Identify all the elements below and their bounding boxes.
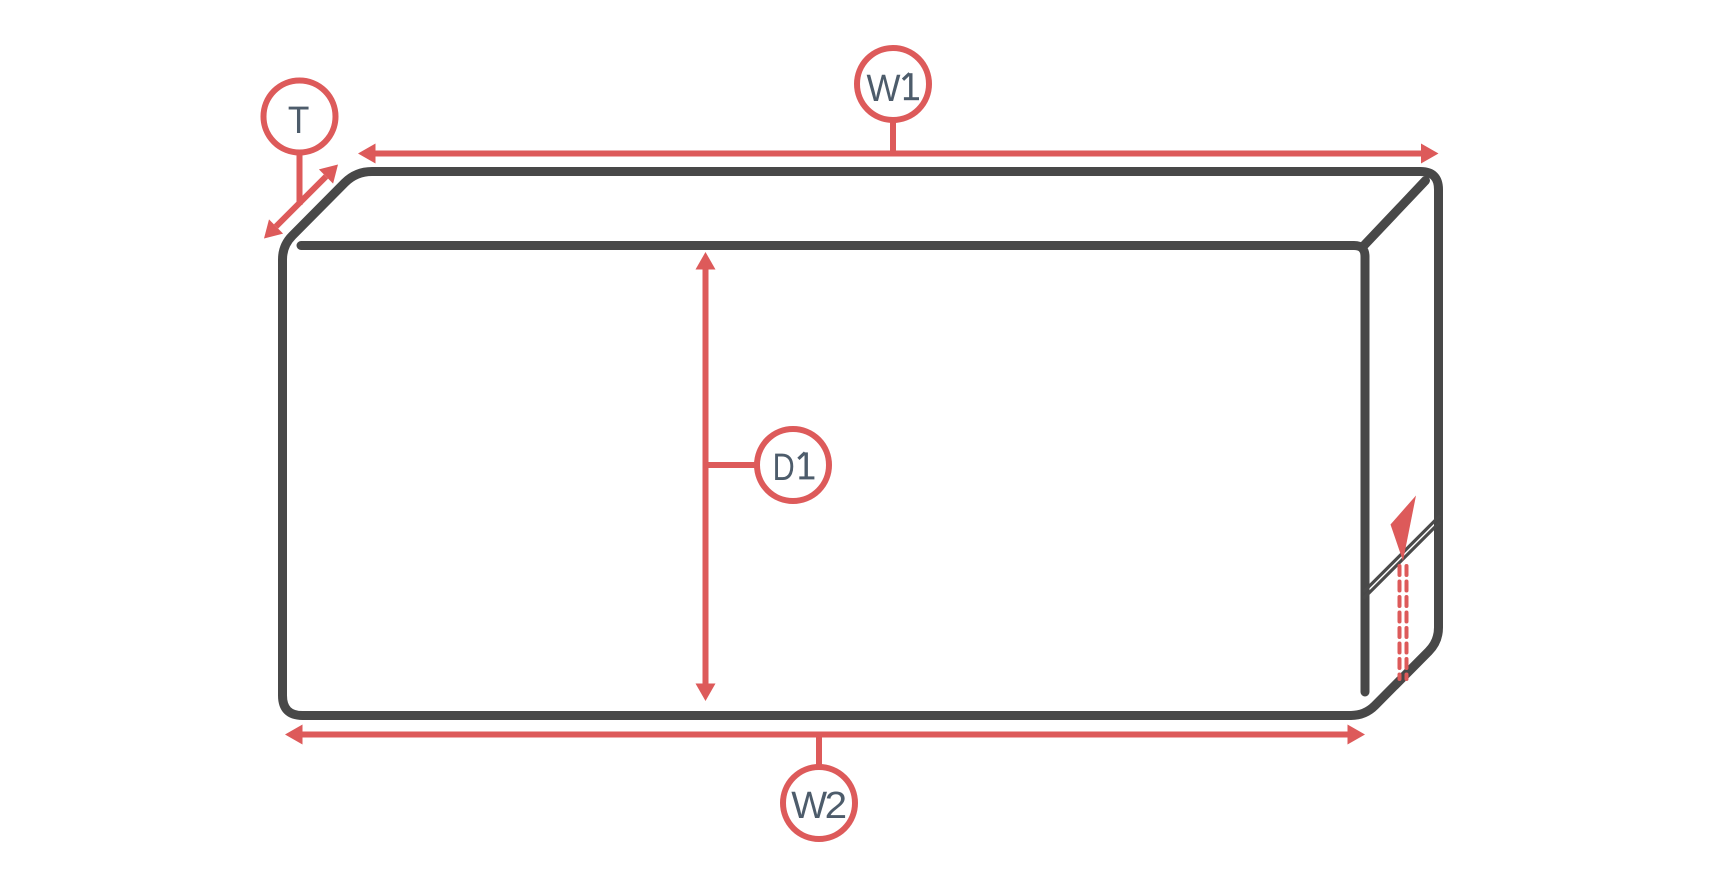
dimension W1 left arrowhead: [358, 144, 376, 164]
svg-text:W: W: [867, 68, 901, 110]
svg-text:W: W: [791, 785, 827, 827]
W1 stem: [890, 117, 896, 154]
dimension D1 shaft: [703, 266, 709, 687]
T lower arrowhead: [264, 219, 283, 238]
svg-text:2: 2: [825, 785, 848, 827]
W2 stem: [816, 737, 822, 770]
W2 circle: [783, 767, 855, 839]
T stem: [297, 152, 303, 205]
dimension W1 shaft: [372, 151, 1426, 157]
zipper double line on right face: [1364, 516, 1441, 593]
dimension W2 shaft: [299, 732, 1351, 738]
D1 stem: [706, 462, 759, 468]
T diagonal double-arrow shaft: [276, 177, 326, 227]
D1 top arrowhead: [696, 252, 716, 270]
front face top edge and right edge: [301, 246, 1365, 693]
zipper pull arrow: [1391, 496, 1417, 562]
D1 circle: [757, 429, 829, 501]
svg-text:D: D: [773, 447, 795, 489]
W1 circle: [857, 48, 929, 120]
T upper arrowhead: [319, 165, 338, 184]
dimension W2 right arrowhead: [1348, 725, 1366, 745]
zipper dashed seam lines: [1398, 566, 1402, 679]
dimension W2 left arrowhead: [285, 725, 303, 745]
box silhouette (outer outline of 3D cover): [283, 172, 1439, 716]
svg-text:T: T: [288, 100, 310, 142]
top-right depth diagonal: [1364, 181, 1426, 247]
dimension T circle: [264, 81, 336, 153]
D1 bottom arrowhead: [696, 684, 716, 702]
dimension W1 right arrowhead: [1421, 144, 1439, 164]
